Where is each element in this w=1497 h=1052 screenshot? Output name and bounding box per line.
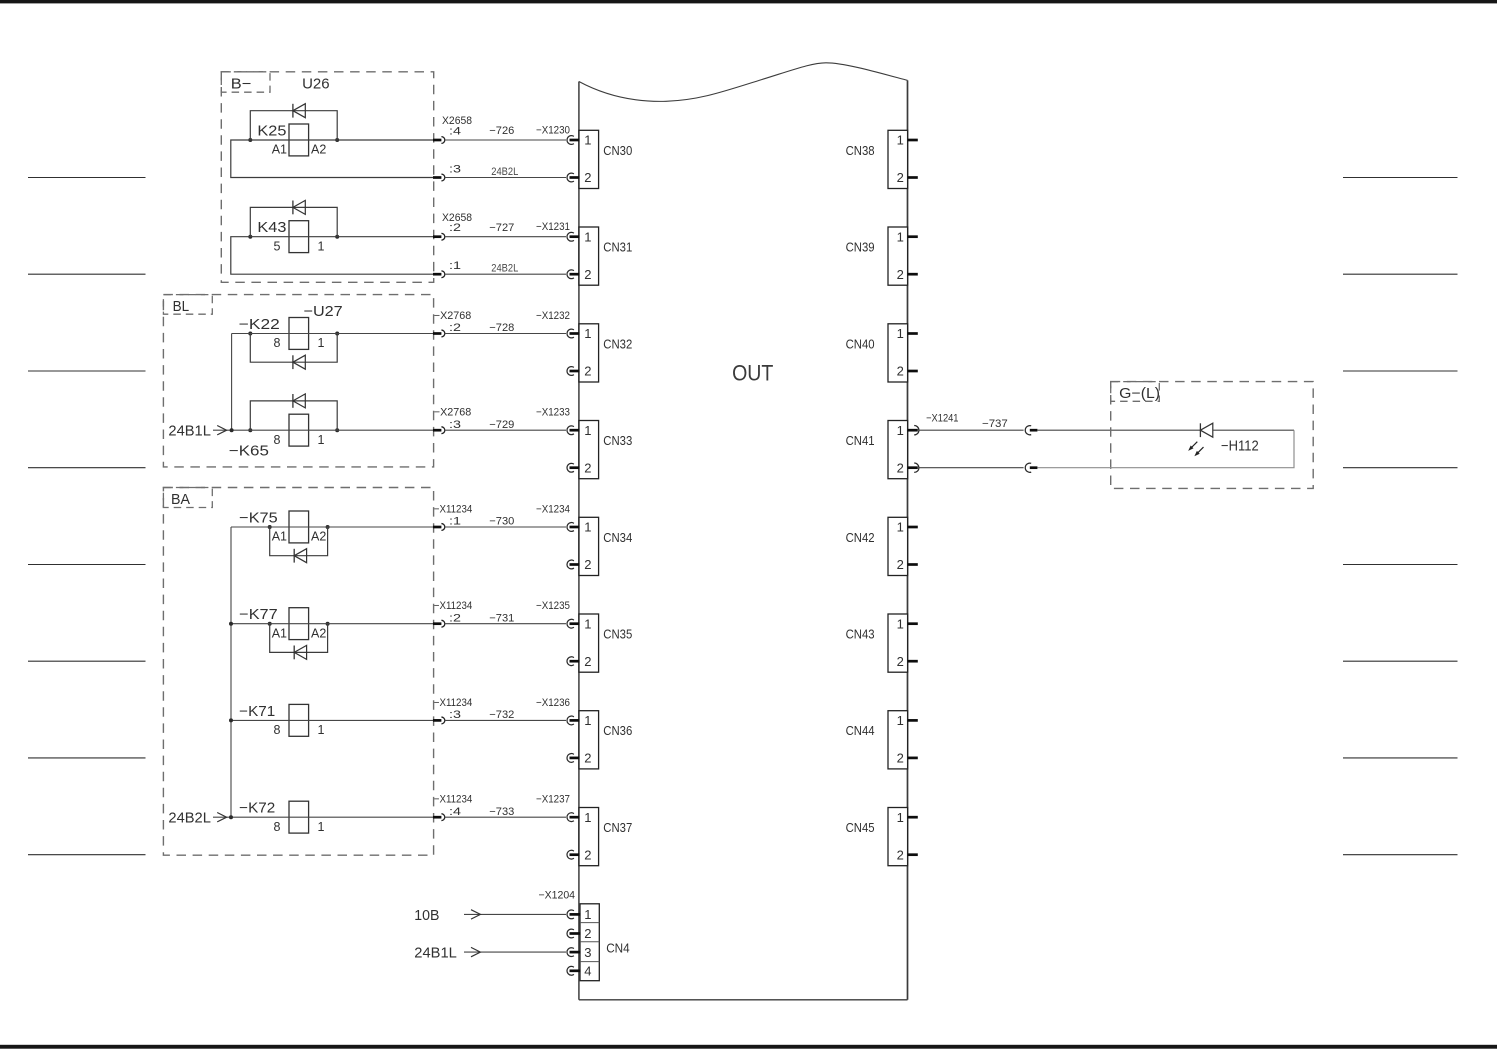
svg-text:−730: −730 [489, 516, 514, 528]
svg-text:CN31: CN31 [603, 241, 632, 255]
CN42 pin 1 stub [908, 526, 918, 529]
CN39 pin 2 stub [908, 273, 918, 276]
connector CN31 box [579, 227, 599, 285]
wire return to CN41 pin 2 [919, 467, 1023, 469]
wire 24B2L to CN31 pin 2 [445, 273, 566, 275]
svg-text:CN34: CN34 [603, 531, 632, 545]
wire −729 from X2768:3 to CN33 pin 1 [445, 429, 566, 431]
node 24B2L junction [229, 815, 233, 819]
svg-text:1: 1 [584, 423, 591, 438]
connector pin X11234:4 [433, 816, 441, 819]
bottom border bar [0, 1045, 1497, 1049]
wire −727 from X2658:2 to CN31 pin 1 [445, 236, 566, 238]
junction dots on relay K75 wire [268, 525, 272, 529]
relay coil K25 [289, 124, 309, 156]
svg-text:CN41: CN41 [846, 434, 875, 448]
svg-text:−726: −726 [489, 125, 514, 137]
svg-text:2: 2 [897, 751, 904, 766]
CN33 pin 1 socket [567, 426, 574, 435]
svg-text::3: :3 [449, 164, 461, 176]
suppression diode loop for relay K65 [250, 401, 337, 430]
svg-text:1: 1 [897, 423, 904, 438]
svg-text:1: 1 [584, 810, 591, 825]
svg-text:−K71: −K71 [239, 704, 275, 720]
CN4 pin 1 socket [567, 910, 574, 919]
CN33 pin 2 socket [567, 463, 574, 472]
CN4 pin 4 socket [567, 966, 574, 975]
svg-text:CN33: CN33 [603, 434, 632, 448]
wire relay row 1 coil loop left link [231, 237, 433, 275]
wire K22 row horizontal [232, 333, 433, 335]
svg-text:−X1235: −X1235 [536, 600, 570, 612]
svg-text:1: 1 [897, 810, 904, 825]
diode of relay K75 [293, 549, 295, 563]
svg-text::3: :3 [449, 709, 461, 721]
svg-text:2: 2 [584, 267, 591, 282]
svg-text:1: 1 [584, 229, 591, 244]
svg-text:CN44: CN44 [846, 724, 875, 738]
connector CN41 box [888, 421, 908, 479]
svg-text:−X1204: −X1204 [539, 890, 576, 902]
relay coil K65 [289, 414, 309, 446]
CN37 pin 2 socket [567, 850, 574, 859]
wire −726 from X2658:4 to CN30 pin 1 [445, 139, 566, 141]
CN41 pin 1 stub [908, 429, 918, 432]
wire K75 row horizontal [231, 526, 433, 528]
CN35 pin 2 socket [567, 657, 574, 666]
OUT module box left edge [578, 82, 580, 1000]
CN41 pin 2 plug arc [914, 463, 919, 472]
svg-text:−X11234: −X11234 [434, 503, 473, 515]
connector CN40 box [888, 324, 908, 382]
LED lamp -H112 diode [1199, 423, 1201, 437]
connector pin X11234:2 [433, 622, 441, 625]
svg-text:−737: −737 [982, 418, 1008, 430]
svg-text:1: 1 [318, 820, 325, 834]
junction dots on relay K77 wire [268, 622, 272, 626]
node 24B1L junction [230, 428, 234, 432]
right margin row line 4 [1343, 467, 1458, 469]
wire bus 24B2L vertical (BA box) [230, 527, 232, 817]
svg-text:2: 2 [584, 557, 591, 572]
svg-text:−X1234: −X1234 [536, 503, 570, 515]
svg-text:8: 8 [274, 433, 281, 447]
CN30 pin 1 socket [567, 136, 574, 145]
svg-text:2: 2 [897, 847, 904, 862]
connector CN4 box [580, 904, 599, 981]
right margin row line 6 [1343, 660, 1458, 662]
wire -737 to lamp H112 [1037, 429, 1200, 431]
svg-text:CN38: CN38 [846, 144, 875, 158]
svg-text:4: 4 [584, 964, 591, 979]
24B1L arrow [217, 426, 226, 435]
24B1L arrow [471, 947, 480, 956]
svg-text:A2: A2 [311, 626, 326, 640]
relay coil K22 [289, 318, 309, 350]
svg-text:1: 1 [318, 336, 325, 350]
svg-text:−X2768: −X2768 [434, 310, 472, 322]
svg-text:B−: B− [231, 76, 252, 93]
svg-text::2: :2 [449, 612, 461, 624]
suppression diode loop for relay K77 [270, 624, 328, 653]
CN4 pin 3 socket [567, 948, 574, 957]
top border bar [0, 0, 1497, 3]
right margin row line 1 [1343, 177, 1458, 179]
svg-text:1: 1 [584, 713, 591, 728]
svg-text:2: 2 [584, 654, 591, 669]
connector pin X2768:2 [433, 332, 441, 335]
CN43 pin 2 stub [908, 660, 918, 663]
BL label box [163, 295, 212, 315]
svg-text:2: 2 [897, 460, 904, 475]
svg-text:3: 3 [584, 945, 591, 960]
connector CN42 box [888, 517, 908, 575]
svg-text:8: 8 [274, 336, 281, 350]
svg-text:−729: −729 [489, 419, 514, 431]
svg-text:−X1237: −X1237 [536, 794, 570, 806]
CN44 pin 1 stub [908, 719, 918, 722]
svg-text:K25: K25 [257, 123, 286, 139]
10B arrow [471, 910, 480, 919]
svg-text:CN42: CN42 [846, 531, 875, 545]
svg-text:A1: A1 [272, 143, 287, 157]
svg-text:BL: BL [173, 298, 190, 315]
diode of relay K25 [292, 104, 294, 118]
CN40 pin 1 stub [908, 332, 918, 335]
svg-text:1: 1 [897, 616, 904, 631]
svg-text:1: 1 [897, 133, 904, 148]
svg-text:24B1L: 24B1L [168, 424, 211, 440]
svg-text:1: 1 [584, 907, 591, 922]
dashed box G-(L) [1111, 382, 1314, 489]
svg-text::2: :2 [449, 222, 461, 234]
svg-text:1: 1 [584, 520, 591, 535]
svg-text:CN43: CN43 [846, 628, 875, 642]
left margin row line 4 [28, 467, 146, 469]
svg-text:−K65: −K65 [229, 444, 269, 460]
CN41 pin 1 plug arc [914, 426, 919, 435]
wire −732 from X11234:3 to CN36 pin 1 [445, 719, 566, 721]
OUT module box bottom edge [579, 999, 908, 1001]
diode of relay K77 [293, 646, 295, 660]
svg-text:−K72: −K72 [239, 801, 275, 817]
right margin row line 7 [1343, 757, 1458, 759]
svg-text::2: :2 [449, 322, 461, 334]
svg-text:K43: K43 [257, 220, 286, 236]
suppression diode loop for relay K25 [250, 111, 337, 140]
svg-text:−X1241: −X1241 [926, 413, 958, 425]
svg-text:1: 1 [584, 326, 591, 341]
right margin row line 3 [1343, 370, 1458, 372]
suppression diode loop for relay K43 [250, 207, 337, 236]
dashed box B- (unit U26) [221, 72, 433, 282]
connector pin X2658:1 [433, 273, 441, 276]
wire −728 from X2768:2 to CN32 pin 1 [445, 333, 566, 335]
relay coil K77 [289, 608, 309, 640]
svg-text:1: 1 [318, 723, 325, 737]
svg-text:CN32: CN32 [603, 337, 632, 351]
dashed box BL (unit U27) [163, 295, 433, 467]
CN31 pin 1 socket [567, 232, 574, 241]
junction dots on relay K43 wire [248, 235, 252, 239]
svg-text:CN39: CN39 [846, 241, 875, 255]
suppression diode loop for relay K22 [250, 334, 337, 363]
svg-text:−X1236: −X1236 [536, 697, 570, 709]
svg-text:CN35: CN35 [603, 628, 632, 642]
junction dots on relay K65 wire [248, 428, 252, 432]
svg-text:1: 1 [318, 239, 325, 253]
connector CN43 box [888, 614, 908, 672]
svg-text:−X11234: −X11234 [434, 697, 473, 709]
svg-text:2: 2 [897, 170, 904, 185]
CN36 pin 1 socket [567, 716, 574, 725]
svg-text:−K75: −K75 [239, 510, 278, 526]
svg-text:2: 2 [897, 654, 904, 669]
svg-text:A2: A2 [311, 530, 326, 544]
left margin row line 1 [28, 177, 146, 179]
B- label box [221, 72, 270, 92]
connector CN37 box [579, 808, 599, 866]
connector pin X2768:3 [433, 429, 441, 432]
CN38 pin 2 stub [908, 176, 918, 179]
svg-text:−727: −727 [489, 222, 514, 234]
CN45 pin 1 stub [908, 816, 918, 819]
svg-text:1: 1 [897, 520, 904, 535]
left margin row line 3 [28, 370, 146, 372]
relay coil K71 [289, 704, 309, 736]
svg-text:8: 8 [274, 723, 281, 737]
svg-text:−H112: −H112 [1221, 438, 1259, 454]
connector CN38 box [888, 130, 908, 188]
svg-text:2: 2 [584, 926, 591, 941]
CN30 pin 2 socket [567, 173, 574, 182]
connector pin X2658:3 [433, 176, 441, 179]
wire −730 from X11234:1 to CN34 pin 1 [445, 526, 566, 528]
svg-text:−732: −732 [489, 709, 514, 721]
connector CN39 box [888, 227, 908, 285]
LED light emission arrows [1191, 442, 1198, 449]
connector CN45 box [888, 808, 908, 866]
svg-text:−K22: −K22 [239, 317, 280, 333]
left margin row line 7 [28, 757, 146, 759]
inline connector socket on return wire [1025, 463, 1031, 472]
left margin row line 2 [28, 273, 146, 275]
right margin row line 5 [1343, 564, 1458, 566]
relay coil K75 [289, 511, 309, 543]
svg-text:1: 1 [584, 616, 591, 631]
relay coil K72 [289, 801, 309, 833]
connector pin X11234:1 [433, 526, 441, 529]
diode of relay K22 [292, 355, 294, 369]
wire 24B1L entry to K65 row [213, 429, 433, 431]
svg-text:A1: A1 [272, 626, 287, 640]
svg-text:U26: U26 [302, 76, 330, 93]
svg-text:1: 1 [318, 433, 325, 447]
CN32 pin 2 socket [567, 367, 574, 376]
svg-text:1: 1 [584, 133, 591, 148]
svg-text:24B2L: 24B2L [491, 263, 518, 275]
inline connector socket on -737 wire [1025, 426, 1031, 435]
node bus/K77 junction [229, 622, 233, 626]
svg-text:−X11234: −X11234 [434, 600, 473, 612]
connector pin X2658:2 [433, 235, 441, 238]
connector pin X2658:4 [433, 139, 441, 142]
CN34 pin 2 socket [567, 560, 574, 569]
connector CN32 box [579, 324, 599, 382]
svg-text:2: 2 [897, 364, 904, 379]
svg-text:−X1230: −X1230 [536, 124, 570, 136]
svg-text:2: 2 [584, 364, 591, 379]
wire 24B2L entry to K72 row [213, 816, 433, 818]
left margin row line 6 [28, 660, 146, 662]
wire 24B1L to CN4 pin 3 [464, 951, 566, 953]
svg-text:2: 2 [584, 460, 591, 475]
CN31 pin 2 socket [567, 270, 574, 279]
svg-text:CN37: CN37 [603, 821, 632, 835]
svg-text::4: :4 [449, 125, 461, 137]
wire 10B to CN4 pin 1 [464, 913, 566, 915]
CN34 pin 1 socket [567, 523, 574, 532]
left margin row line 5 [28, 564, 146, 566]
svg-text::4: :4 [449, 806, 461, 818]
diode of relay K65 [292, 394, 294, 408]
wire from H112 to right corner [1213, 429, 1294, 431]
svg-text:2: 2 [584, 751, 591, 766]
svg-text:8: 8 [274, 820, 281, 834]
svg-text::1: :1 [449, 516, 461, 528]
svg-text:24B2L: 24B2L [491, 166, 518, 178]
CN35 pin 1 socket [567, 619, 574, 628]
connector CN44 box [888, 711, 908, 769]
CN40 pin 2 stub [908, 370, 918, 373]
CN4 pin 2 socket [567, 929, 574, 938]
svg-text::3: :3 [449, 419, 461, 431]
svg-text:CN4: CN4 [606, 942, 630, 956]
CN32 pin 1 socket [567, 329, 574, 338]
svg-text:2: 2 [897, 267, 904, 282]
svg-text:CN36: CN36 [603, 724, 632, 738]
svg-text:1: 1 [897, 229, 904, 244]
svg-text:−X1232: −X1232 [536, 310, 570, 322]
diode of relay K43 [292, 201, 294, 215]
right margin row line 2 [1343, 273, 1458, 275]
svg-text:BA: BA [171, 491, 190, 508]
wire -737 CN41 pin1 to inline connector [919, 429, 1023, 431]
wire 24B2L to CN30 pin 2 [445, 177, 566, 179]
svg-text:1: 1 [897, 713, 904, 728]
svg-text:2: 2 [897, 557, 904, 572]
connector CN36 box [579, 711, 599, 769]
dashed box BA [163, 488, 433, 856]
svg-text:G−(L): G−(L) [1119, 386, 1160, 402]
svg-text:CN30: CN30 [603, 144, 632, 158]
svg-text:10B: 10B [414, 908, 439, 924]
OUT module box right edge [907, 80, 909, 999]
node bus/K71 junction [229, 718, 233, 722]
svg-text:5: 5 [274, 239, 281, 253]
24B2L arrow [217, 813, 226, 822]
CN36 pin 2 socket [567, 754, 574, 763]
CN41 pin 2 stub [908, 466, 918, 469]
CN38 pin 1 stub [908, 139, 918, 142]
wire K71 row horizontal [231, 719, 433, 721]
svg-text:−X2768: −X2768 [434, 407, 472, 419]
relay coil K43 [289, 221, 309, 253]
svg-text:−X11234: −X11234 [434, 794, 473, 806]
right margin row line 8 [1343, 854, 1458, 856]
CN44 pin 2 stub [908, 757, 918, 760]
svg-text:CN40: CN40 [846, 337, 875, 351]
svg-text:24B2L: 24B2L [168, 811, 211, 827]
svg-text::1: :1 [449, 260, 461, 272]
junction dots on relay K25 wire [248, 138, 252, 142]
CN37 pin 1 socket [567, 813, 574, 822]
svg-text:−733: −733 [489, 806, 514, 818]
G-(L) label box [1111, 382, 1160, 402]
left margin row line 8 [28, 854, 146, 856]
svg-text:A2: A2 [311, 143, 326, 157]
svg-text:1: 1 [897, 326, 904, 341]
svg-text:−K77: −K77 [239, 607, 278, 623]
svg-text:2: 2 [584, 847, 591, 862]
wire −733 from X11234:4 to CN37 pin 1 [445, 816, 566, 818]
svg-text:2: 2 [584, 170, 591, 185]
CN45 pin 2 stub [908, 853, 918, 856]
wire −731 from X11234:2 to CN35 pin 1 [445, 623, 566, 625]
svg-text:−X1231: −X1231 [536, 221, 570, 233]
junction dots on relay K22 wire [248, 332, 252, 336]
OUT module box wavy break top edge [579, 63, 908, 102]
CN43 pin 1 stub [908, 622, 918, 625]
wire bus 24B1L vertical (BL box) [231, 334, 233, 431]
wire K77 row horizontal [231, 623, 433, 625]
suppression diode loop for relay K75 [270, 527, 328, 556]
svg-text:−X1233: −X1233 [536, 407, 570, 419]
connector CN33 box [579, 421, 599, 479]
connector CN35 box [579, 614, 599, 672]
svg-text:−731: −731 [489, 612, 514, 624]
svg-text:24B1L: 24B1L [414, 946, 457, 962]
wire H112 return loop [1037, 430, 1294, 468]
connector CN34 box [579, 517, 599, 575]
svg-text:A1: A1 [272, 530, 287, 544]
svg-text:CN45: CN45 [846, 821, 875, 835]
CN42 pin 2 stub [908, 563, 918, 566]
svg-text:−U27: −U27 [304, 303, 343, 320]
connector pin X11234:3 [433, 719, 441, 722]
CN39 pin 1 stub [908, 235, 918, 238]
svg-text:−728: −728 [489, 322, 514, 334]
wire relay row 0 coil loop left link [231, 140, 433, 178]
svg-text:OUT: OUT [732, 360, 773, 385]
BA label box [163, 488, 212, 508]
connector CN30 box [579, 130, 599, 188]
